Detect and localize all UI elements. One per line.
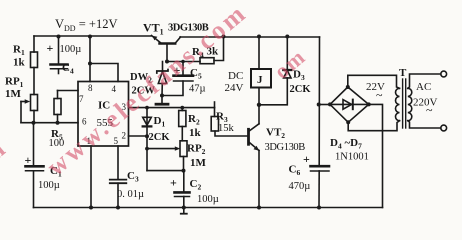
svg-text:AC: AC	[416, 81, 431, 93]
diodes D4-D7 label	[330, 137, 369, 163]
potentiometer RP1	[21, 95, 38, 123]
capacitor C1	[26, 123, 44, 208]
resistor R1 label	[13, 44, 26, 69]
resistor R1	[31, 36, 38, 95]
transformer T label	[399, 67, 407, 79]
capacitor C4	[51, 35, 68, 74]
capacitor C6	[311, 166, 330, 171]
node base wire to R4	[167, 60, 200, 64]
transistor VT2 label	[265, 127, 306, 154]
transformer secondary winding	[396, 88, 400, 120]
svg-text:~: ~	[426, 103, 433, 117]
resistor R2	[179, 108, 186, 141]
resistor R2 label	[188, 113, 202, 139]
relay label DC 24V	[225, 70, 244, 94]
svg-text:2CK: 2CK	[290, 84, 312, 95]
capacitor C3 label	[117, 170, 144, 200]
IC 555 label	[97, 100, 114, 130]
potentiometer RP2	[180, 141, 187, 171]
svg-text:D4 ~D7: D4 ~D7	[330, 137, 362, 151]
zener DW2	[157, 62, 168, 98]
svg-text:+: +	[25, 153, 32, 167]
wire pin6 node	[21, 121, 78, 125]
svg-text:7: 7	[79, 94, 84, 104]
transistor VT2	[249, 105, 262, 210]
watermark fragment top right	[269, 43, 311, 84]
wire top rail left	[34, 35, 151, 37]
transformer T core	[403, 79, 406, 128]
ground	[156, 96, 168, 105]
wire pin2	[129, 135, 148, 137]
wire top rail right	[180, 36, 320, 38]
svg-text:100µ: 100µ	[38, 180, 60, 191]
svg-text:0. 01µ: 0. 01µ	[117, 189, 144, 200]
svg-text:+: +	[47, 41, 54, 55]
capacitor C4 label	[47, 41, 82, 76]
svg-text:2CK: 2CK	[149, 132, 171, 143]
diode D3	[259, 35, 291, 105]
wire VT1 base	[165, 44, 169, 64]
capacitor C2	[175, 171, 190, 214]
wire bridge bottom AC	[348, 121, 399, 131]
wire +12V bus right	[317, 37, 321, 210]
svg-text:T: T	[399, 67, 407, 79]
node VDD label	[55, 17, 117, 33]
capacitor C2 label	[170, 176, 219, 206]
potentiometer RP2 label	[187, 143, 207, 170]
wire pin3 output	[129, 102, 215, 110]
transformer primary winding	[408, 88, 412, 120]
resistor R4 label	[192, 46, 219, 60]
wire bridge top AC	[348, 75, 400, 88]
wire bus to bridge	[319, 104, 330, 106]
wire pin7	[58, 90, 79, 92]
svg-text:+: +	[170, 176, 177, 190]
wire bridge DC minus to ground	[369, 104, 383, 207]
capacitor C6 label	[289, 152, 311, 192]
resistor R3 label	[216, 111, 235, 135]
svg-text:1k: 1k	[13, 57, 26, 69]
transistor VT1	[152, 36, 181, 44]
resistor R5	[54, 91, 61, 125]
svg-text:+: +	[303, 152, 310, 166]
svg-text:100µ: 100µ	[60, 44, 82, 55]
relay J	[251, 35, 271, 108]
resistor R5 label	[49, 128, 65, 149]
svg-text:~: ~	[376, 88, 383, 102]
wire primary top terminal	[408, 71, 447, 88]
resistor R3	[211, 108, 248, 136]
svg-text:1M: 1M	[5, 88, 22, 100]
wire primary bottom terminal	[408, 121, 447, 131]
potentiometer RP1 label	[5, 76, 24, 101]
svg-text:47µ: 47µ	[189, 84, 206, 95]
relay J label	[257, 74, 263, 86]
svg-text:4: 4	[112, 84, 117, 94]
svg-text:100µ: 100µ	[197, 194, 219, 205]
svg-text:3DG130B: 3DG130B	[265, 142, 306, 153]
svg-text:J: J	[257, 74, 263, 86]
svg-text:8: 8	[88, 83, 93, 93]
watermark www.elecfans.com main diagonal	[41, 0, 253, 182]
svg-text:15k: 15k	[218, 123, 235, 134]
svg-text:1N1001: 1N1001	[335, 152, 369, 163]
capacitor C5	[162, 62, 193, 96]
svg-text:5: 5	[114, 136, 119, 146]
op-amp U1 IC555 box	[78, 82, 129, 147]
zener DW2 label	[130, 72, 155, 97]
svg-text:DC: DC	[228, 70, 243, 82]
resistor R4	[200, 35, 226, 64]
wire IC supply pins 8 and 4	[88, 35, 118, 82]
svg-text:1k: 1k	[189, 127, 202, 139]
wire bottom rail	[34, 207, 383, 209]
svg-text:24V: 24V	[225, 82, 244, 94]
IC pin labels	[79, 83, 127, 146]
svg-text:470µ: 470µ	[289, 181, 311, 192]
diode D1	[143, 108, 152, 139]
wire pin1 ground	[89, 146, 93, 210]
diode D3 label	[290, 69, 312, 96]
capacitor C1 label	[25, 153, 62, 191]
capacitor C3	[110, 146, 127, 210]
svg-text:1M: 1M	[190, 157, 207, 169]
wire D1 cathode to RP2 wiper and C2	[145, 136, 185, 172]
capacitor C5 label	[174, 63, 206, 95]
winding 22V label	[366, 81, 385, 102]
watermark fragment left edge	[0, 133, 12, 171]
winding AC 220V label	[413, 81, 438, 117]
diode D1 label	[149, 115, 171, 143]
svg-text:2: 2	[122, 131, 127, 141]
bridge rectifier D4-D7	[328, 85, 371, 124]
transistor VT1 label	[143, 21, 209, 37]
